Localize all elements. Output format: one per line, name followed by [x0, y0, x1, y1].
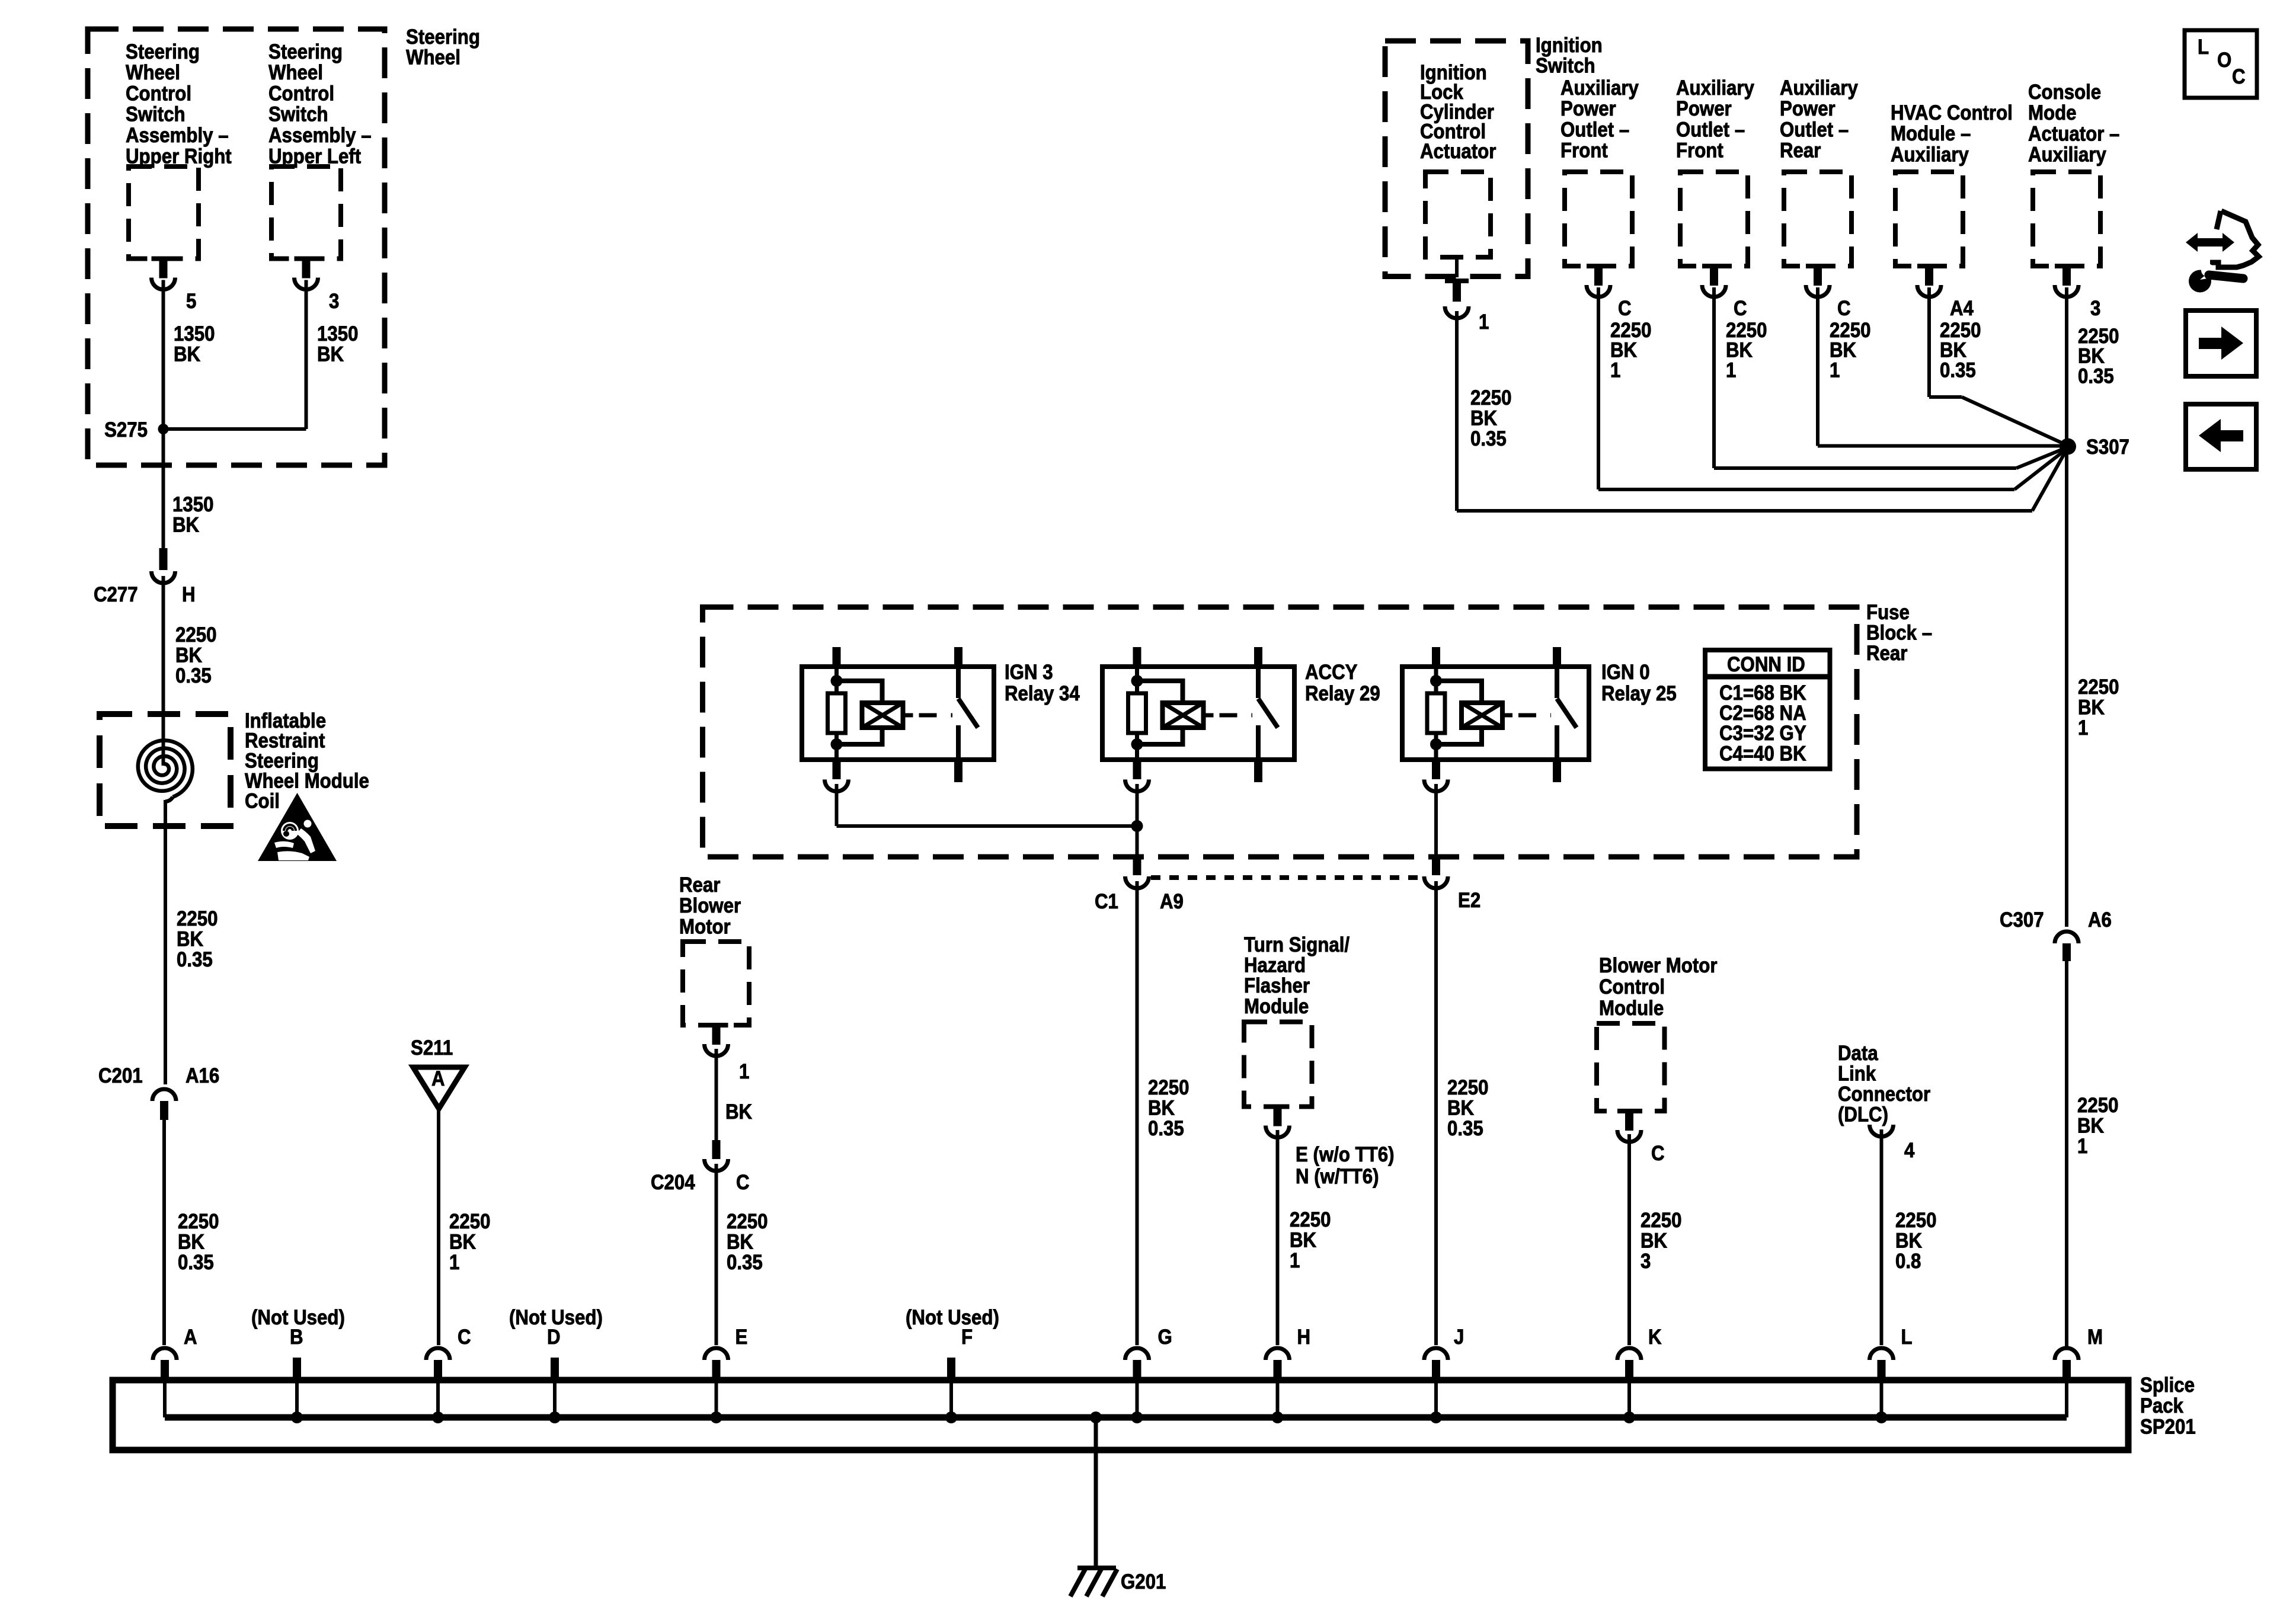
- wire ILCCA horizontal to S307: [1457, 509, 2032, 513]
- svg-text:Fuse: Fuse: [1866, 601, 1910, 624]
- connector cup of relay IGN 3 Relay 34: [825, 780, 849, 792]
- auxiliary power outlet rear connector box: [1784, 172, 1851, 266]
- label (Not Used): [906, 1306, 999, 1329]
- svg-text:1350: 1350: [317, 322, 358, 345]
- pin letter C: [458, 1326, 471, 1349]
- svg-text:Control: Control: [126, 82, 191, 105]
- pin C of auxiliary power outlet front 2: [1734, 297, 1747, 320]
- svg-text:Blower: Blower: [679, 894, 741, 917]
- ILCCA connector box: [1425, 172, 1491, 257]
- wire relay IGN 3 Relay 34 resistor bottom: [834, 733, 839, 760]
- svg-text:0.35: 0.35: [2078, 365, 2114, 388]
- wire 2250 BK 0.35 to splice pin J: [1434, 881, 1438, 1345]
- pin letter M: [2087, 1326, 2103, 1349]
- fuse block connector dotted boundary: [1151, 875, 1422, 880]
- splice pack pin J: [1424, 1348, 1448, 1360]
- junction at ACCY relay wire: [1131, 820, 1143, 832]
- svg-text:1: 1: [1290, 1249, 1300, 1272]
- svg-text:G: G: [1158, 1326, 1172, 1349]
- svg-text:SP201: SP201: [2140, 1416, 2196, 1439]
- svg-text:3: 3: [2090, 297, 2100, 320]
- wire splice jog to S275: [164, 427, 306, 431]
- junction at ground tap: [1090, 1411, 1102, 1423]
- label ignition lock cylinder control actuator: [1420, 61, 1496, 163]
- wire label 2250 BK 1 above pin H: [1290, 1208, 1331, 1272]
- wire relay ACCY Relay 29 coil parallel branch: [1137, 681, 1183, 703]
- svg-text:BK: BK: [725, 1100, 752, 1124]
- svg-text:(Not Used): (Not Used): [251, 1306, 345, 1329]
- svg-text:0.35: 0.35: [1470, 427, 1507, 450]
- wire console mode actuator down to C307: [2065, 287, 2068, 927]
- svg-text:C204: C204: [651, 1171, 695, 1194]
- label auxiliary power outlet front 2: [1676, 76, 1754, 162]
- splice pack pin C: [426, 1348, 450, 1360]
- wire label BK: [725, 1100, 752, 1124]
- label C201: [98, 1064, 143, 1087]
- wire label 2250 BK 0.35: [175, 623, 216, 687]
- wire label 1350 BK (pin 5): [174, 322, 215, 366]
- wire label 2250 BK 1 above pin M: [2077, 1094, 2118, 1158]
- pin E2: [1458, 889, 1480, 912]
- CONN ID table: [1705, 650, 1830, 769]
- svg-text:BK: BK: [174, 343, 200, 366]
- connector of DLC pin 4: [1870, 1125, 1894, 1137]
- arrow box left: [2186, 404, 2256, 469]
- wire label 2250 BK 0.35 below coil: [177, 907, 218, 971]
- HVAC control module auxiliary connector box: [1895, 172, 1963, 266]
- svg-text:ACCY: ACCY: [1305, 661, 1357, 684]
- svg-text:C: C: [736, 1171, 750, 1194]
- pin C of auxiliary power outlet front 1: [1618, 297, 1632, 320]
- svg-text:HVAC Control: HVAC Control: [1891, 101, 2013, 124]
- svg-text:K: K: [1648, 1326, 1662, 1349]
- relay IGN 3 Relay 34 switch terminal stub (top): [954, 647, 962, 667]
- connector pin C of auxiliary power outlet front 2: [1702, 264, 1726, 268]
- svg-text:Front: Front: [1676, 139, 1723, 162]
- svg-text:Control: Control: [268, 82, 334, 105]
- wire label 2250 BK 1 (aux outlet rear): [1830, 319, 1870, 382]
- relay ACCY Relay 29 body: [1102, 667, 1294, 760]
- connector pin A4 of HVAC control module auxiliary: [1917, 264, 1941, 268]
- svg-text:Hazard: Hazard: [1244, 954, 1306, 977]
- svg-text:H: H: [182, 583, 196, 606]
- svg-text:Actuator –: Actuator –: [2028, 123, 2119, 146]
- svg-text:A: A: [431, 1067, 445, 1090]
- letter C: [2232, 65, 2246, 88]
- svg-text:N (w/TT6): N (w/TT6): [1296, 1165, 1379, 1188]
- wire IGN0 relay coil return down: [1434, 784, 1438, 858]
- svg-text:Outlet –: Outlet –: [1780, 119, 1849, 142]
- relay ACCY Relay 29 coil terminal stub (top): [1133, 647, 1141, 667]
- wire 1350 BK below S275: [162, 429, 165, 548]
- pin letter G: [1158, 1326, 1172, 1349]
- svg-text:BK: BK: [1470, 407, 1497, 430]
- svg-text:3: 3: [1641, 1250, 1651, 1273]
- wire label 2250 BK 1 (aux outlet 1): [1610, 319, 1651, 382]
- wire HVAC diagonal to S307: [1962, 397, 2068, 446]
- splice pack pin E: [705, 1348, 728, 1360]
- svg-text:BK: BK: [1641, 1230, 1667, 1253]
- svg-text:E: E: [736, 1326, 748, 1349]
- svg-text:Ignition: Ignition: [1536, 34, 1603, 57]
- svg-text:S275: S275: [104, 418, 148, 441]
- arrow box right: [2186, 311, 2256, 376]
- label auxiliary power outlet front 1: [1560, 76, 1639, 162]
- wire BK from rear blower: [715, 1049, 718, 1140]
- svg-text:Assembly –: Assembly –: [126, 124, 229, 147]
- junction relay ACCY Relay 29 coil bottom: [1131, 738, 1143, 750]
- relay IGN 0 Relay 25 switch terminal stub (bottom): [1553, 760, 1561, 782]
- svg-text:M: M: [2087, 1326, 2103, 1349]
- svg-text:Power: Power: [1780, 97, 1835, 120]
- airbag warning triangle: [258, 793, 337, 861]
- connector pin 1 of rear blower motor: [705, 1023, 728, 1028]
- svg-text:BK: BK: [1447, 1097, 1474, 1120]
- wire label 1350 BK below box: [172, 493, 213, 537]
- svg-text:Auxiliary: Auxiliary: [2028, 143, 2106, 167]
- connector pin 1 of ILCCA: [1455, 257, 1459, 277]
- splice pack pin F: [947, 1358, 955, 1379]
- svg-text:0.35: 0.35: [727, 1251, 763, 1274]
- splice pack pin D: [551, 1358, 559, 1379]
- splice S275: [158, 424, 169, 434]
- svg-text:1: 1: [2077, 1135, 2087, 1158]
- svg-text:BK: BK: [172, 514, 199, 537]
- wire aux outlet 1 diagonal to S307: [2014, 448, 2068, 489]
- label auxiliary power outlet rear: [1780, 76, 1858, 162]
- svg-text:A16: A16: [186, 1064, 219, 1087]
- svg-text:Relay 34: Relay 34: [1005, 682, 1080, 705]
- svg-text:BK: BK: [1895, 1230, 1922, 1253]
- svg-text:2250: 2250: [175, 623, 216, 646]
- svg-text:Wheel: Wheel: [268, 61, 323, 84]
- wire label 2250 BK 0.35 above pin E: [727, 1210, 768, 1274]
- svg-text:Auxiliary: Auxiliary: [1891, 143, 1969, 167]
- svg-text:Auxiliary: Auxiliary: [1780, 76, 1858, 100]
- svg-text:2250: 2250: [2078, 676, 2119, 699]
- pin A4 of HVAC control module auxiliary: [1950, 297, 1974, 320]
- wire 2250 BK 3 to splice pin K: [1627, 1134, 1631, 1345]
- label fuse block rear: [1866, 601, 1932, 665]
- connector pin 3 of console mode actuator auxiliary: [2055, 264, 2078, 268]
- svg-text:BK: BK: [317, 343, 344, 366]
- relay IGN 0 Relay 25 coil terminal stub (top): [1432, 647, 1440, 667]
- wire ACCY relay coil return down: [1136, 784, 1139, 858]
- wire 2250 BK 1 from S211 to pin C: [437, 1109, 440, 1345]
- SWCS upper left connector box: [271, 167, 341, 259]
- svg-text:1: 1: [1479, 311, 1489, 334]
- svg-text:Power: Power: [1676, 97, 1732, 120]
- svg-text:J: J: [1454, 1326, 1464, 1349]
- pin C of BMCM: [1651, 1142, 1665, 1165]
- svg-text:Blower Motor: Blower Motor: [1599, 954, 1717, 977]
- label console mode actuator auxiliary: [2028, 81, 2119, 167]
- pin number 5: [186, 290, 196, 313]
- svg-text:Control: Control: [1599, 975, 1665, 998]
- wire 2250 BK 1 to splice pin M: [2065, 961, 2068, 1347]
- svg-text:Relay 29: Relay 29: [1305, 682, 1380, 705]
- svg-text:2250: 2250: [2077, 1094, 2118, 1117]
- svg-text:IGN 0: IGN 0: [1601, 661, 1650, 684]
- wire label 2250 BK 3 above pin K: [1641, 1209, 1681, 1273]
- svg-text:H: H: [1297, 1326, 1311, 1349]
- service icon double arrow: [2186, 233, 2234, 252]
- service icon wrench: [2189, 270, 2211, 293]
- label C277: [94, 583, 138, 606]
- svg-text:Link: Link: [1838, 1062, 1876, 1086]
- wire label 2250 BK 1 (aux outlet 2): [1726, 319, 1767, 382]
- svg-text:3: 3: [329, 290, 339, 313]
- svg-text:2250: 2250: [178, 1210, 219, 1233]
- wire relay IGN 0 Relay 25 coil parallel branch: [1436, 681, 1482, 703]
- svg-text:Splice: Splice: [2140, 1374, 2195, 1397]
- svg-text:2250: 2250: [1148, 1076, 1189, 1099]
- label SWCS upper right: [126, 40, 232, 168]
- svg-text:0.35: 0.35: [175, 664, 212, 687]
- splice pack pin G: [1125, 1348, 1149, 1360]
- svg-text:Mode: Mode: [2028, 101, 2077, 124]
- svg-text:A9: A9: [1160, 890, 1184, 913]
- wire HVAC horizontal: [1929, 395, 1962, 399]
- label splice pack SP201: [2140, 1374, 2196, 1439]
- svg-text:C1: C1: [1095, 890, 1118, 913]
- svg-text:2250: 2250: [1290, 1208, 1331, 1231]
- relay IGN 0 Relay 25 switch terminal stub (top): [1553, 647, 1561, 667]
- label turn signal hazard flasher module: [1244, 933, 1350, 1018]
- letter L: [2198, 36, 2209, 59]
- wire label 2250 BK 0.35 (pin J column): [1447, 1076, 1488, 1140]
- label S211: [411, 1036, 453, 1060]
- wire relay IGN 3 Relay 34 coil branch: [834, 667, 839, 693]
- wire 2250 BK 0.35 to splice pin G: [1136, 881, 1139, 1345]
- splice pack pin H: [1266, 1348, 1290, 1360]
- turn signal flasher connector box: [1244, 1022, 1312, 1107]
- svg-text:Console: Console: [2028, 81, 2101, 104]
- wire aux outlet rear horizontal to S307: [1818, 444, 2068, 448]
- pin letter J: [1454, 1326, 1464, 1349]
- wire label 2250 BK 0.35 (console): [2078, 325, 2119, 388]
- svg-text:Switch: Switch: [126, 103, 186, 126]
- auxiliary power outlet front 1 connector box: [1565, 172, 1632, 266]
- svg-text:A4: A4: [1950, 297, 1974, 320]
- svg-text:0.35: 0.35: [177, 948, 213, 971]
- svg-text:1: 1: [2078, 716, 2088, 740]
- wire 1350 BK from pin 3: [305, 280, 308, 430]
- splice S307: [2060, 438, 2076, 455]
- label blower motor control module: [1599, 954, 1717, 1020]
- wire label 1350 BK (pin 3): [317, 322, 358, 366]
- inflatable restraint coil dashed box: [100, 714, 231, 826]
- svg-text:Outlet –: Outlet –: [1676, 119, 1745, 142]
- pin letter F: [961, 1326, 973, 1349]
- label (Not Used): [509, 1306, 603, 1329]
- svg-text:Steering: Steering: [268, 40, 343, 63]
- relay IGN 3 Relay 34 switch terminal stub (bottom): [954, 760, 962, 782]
- male pin of C277: [159, 548, 168, 570]
- relay ACCY Relay 29 switch terminal stub (top): [1254, 647, 1262, 667]
- wire label 2250 BK 1 above pin C: [449, 1210, 490, 1274]
- svg-text:2250: 2250: [1470, 386, 1511, 409]
- label C204: [651, 1171, 695, 1194]
- svg-text:1: 1: [1610, 359, 1620, 382]
- svg-text:Coil: Coil: [245, 790, 280, 813]
- SWCS upper right connector box: [129, 167, 199, 259]
- splice symbol S211 triangle: [413, 1067, 465, 1109]
- relay ACCY Relay 29 switch terminal stub (bottom): [1254, 760, 1262, 782]
- svg-text:Switch: Switch: [268, 103, 328, 126]
- label SWCS upper left: [268, 40, 372, 168]
- pin number 1: [1479, 311, 1489, 334]
- svg-text:Switch: Switch: [1536, 55, 1595, 78]
- svg-text:L: L: [1901, 1326, 1913, 1349]
- pin number 1 (rear blower): [739, 1060, 749, 1083]
- connector pin 3 of SWCS upper left: [295, 257, 318, 261]
- connector pin 5 of SWCS upper right: [152, 257, 175, 261]
- wire relay ACCY Relay 29 coil branch: [1135, 667, 1139, 693]
- wire aux outlet 1 down: [1597, 287, 1600, 489]
- connector pin C of auxiliary power outlet rear: [1806, 264, 1830, 268]
- svg-text:L: L: [2198, 36, 2209, 59]
- svg-text:BK: BK: [1148, 1097, 1175, 1120]
- wire aux outlet 2 diagonal to S307: [2016, 447, 2068, 469]
- label data link connector DLC: [1838, 1042, 1930, 1126]
- wire 2250 BK 0.8 to splice pin L: [1880, 1129, 1884, 1345]
- coil of relay IGN 0 Relay 25: [1462, 703, 1502, 728]
- wire from coil down to C201: [164, 800, 167, 1084]
- svg-text:Auxiliary: Auxiliary: [1676, 76, 1754, 100]
- svg-text:1: 1: [1726, 359, 1736, 382]
- svg-text:BK: BK: [2077, 1115, 2104, 1138]
- service icon outline shape: [2210, 211, 2259, 267]
- svg-text:S211: S211: [411, 1036, 453, 1060]
- wire 1350 BK from pin 5: [162, 280, 165, 430]
- junction relay ACCY Relay 29 coil top: [1131, 675, 1143, 687]
- svg-text:5: 5: [186, 290, 196, 313]
- svg-text:A6: A6: [2088, 908, 2112, 932]
- wire aux outlet 2 down: [1712, 287, 1716, 468]
- svg-text:C: C: [1651, 1142, 1665, 1165]
- svg-text:C277: C277: [94, 583, 138, 606]
- svg-text:C: C: [1837, 297, 1851, 320]
- resistor of relay IGN 0 Relay 25: [1427, 693, 1445, 733]
- pin C of C204: [736, 1171, 750, 1194]
- svg-text:E2: E2: [1458, 889, 1480, 912]
- svg-text:2250: 2250: [1641, 1209, 1681, 1232]
- svg-text:Steering: Steering: [126, 40, 200, 63]
- pin letter K: [1648, 1326, 1662, 1349]
- switch of relay IGN 0 Relay 25: [1555, 667, 1559, 698]
- label Ignition Switch: [1536, 34, 1603, 78]
- switch of relay ACCY Relay 29: [1256, 667, 1261, 698]
- svg-text:2250: 2250: [727, 1210, 768, 1233]
- clockspring coil symbol: [138, 741, 193, 798]
- blower motor control module connector box: [1597, 1023, 1665, 1111]
- svg-text:BK: BK: [175, 644, 202, 667]
- wire label 2250 BK 0.35 (pin G column): [1148, 1076, 1189, 1140]
- svg-text:Rear: Rear: [1866, 642, 1907, 665]
- wire aux outlet 1 horizontal to S307: [1598, 488, 2014, 491]
- pin E w/o TT6 N w/TT6: [1296, 1143, 1395, 1188]
- splice pack pin L: [1870, 1348, 1894, 1360]
- wire IGN3 relay coil return down: [835, 784, 839, 826]
- resistor of relay ACCY Relay 29: [1128, 693, 1146, 733]
- svg-text:BK: BK: [727, 1231, 753, 1254]
- label G201: [1121, 1570, 1166, 1593]
- label rear blower motor: [679, 873, 741, 939]
- svg-text:(DLC): (DLC): [1838, 1103, 1888, 1126]
- svg-text:IGN 3: IGN 3: [1005, 661, 1053, 684]
- pin letter L: [1901, 1326, 1913, 1349]
- svg-text:0.35: 0.35: [178, 1251, 214, 1274]
- svg-text:CONN ID: CONN ID: [1727, 653, 1805, 676]
- relay IGN 3 Relay 34 body: [802, 667, 994, 760]
- pin number 4 (DLC): [1904, 1139, 1915, 1162]
- connector C277: [152, 571, 175, 583]
- splice pack pin B: [293, 1358, 301, 1379]
- switch of relay IGN 3 Relay 34: [956, 667, 961, 698]
- wire label 2250 BK 0.35 above pin A: [178, 1210, 219, 1274]
- table header CONN ID: [1727, 653, 1805, 676]
- table rows C1-C4: [1719, 681, 1806, 766]
- connector C201: [152, 1089, 176, 1101]
- coil of relay ACCY Relay 29: [1163, 703, 1204, 728]
- svg-text:E (w/o TT6): E (w/o TT6): [1296, 1143, 1395, 1166]
- svg-text:2250: 2250: [1447, 1076, 1488, 1099]
- svg-text:Steering: Steering: [406, 25, 480, 49]
- relay IGN 0 Relay 25 coil terminal stub (bottom): [1432, 760, 1440, 779]
- svg-text:C4=40 BK: C4=40 BK: [1719, 742, 1806, 766]
- svg-text:Outlet –: Outlet –: [1560, 119, 1629, 142]
- wire aux outlet 2 horizontal to S307: [1714, 466, 2016, 470]
- svg-text:Relay 25: Relay 25: [1601, 682, 1677, 705]
- wire 2250 BK 1 to splice pin H: [1276, 1130, 1280, 1345]
- coil of relay IGN 3 Relay 34: [862, 703, 903, 728]
- pin H: [182, 583, 196, 606]
- svg-text:(Not Used): (Not Used): [906, 1306, 999, 1329]
- svg-text:Wheel: Wheel: [126, 61, 180, 84]
- resistor of relay IGN 3 Relay 34: [828, 693, 846, 733]
- connector pin E2 of fuse block: [1432, 859, 1440, 875]
- steering wheel assembly dashed box: [88, 29, 385, 465]
- svg-text:0.35: 0.35: [1148, 1117, 1184, 1140]
- wire relay IGN 3 Relay 34 coil parallel branch: [837, 681, 882, 703]
- ignition switch dashed box: [1385, 41, 1528, 277]
- ground G201 symbol: [1077, 1566, 1116, 1570]
- svg-text:4: 4: [1904, 1139, 1915, 1162]
- svg-text:BK: BK: [1290, 1229, 1316, 1252]
- svg-text:0.8: 0.8: [1895, 1250, 1921, 1273]
- auxiliary power outlet front 2 connector box: [1680, 172, 1748, 266]
- connector pin C of auxiliary power outlet front 1: [1587, 264, 1610, 268]
- pin A16: [186, 1064, 219, 1087]
- svg-text:0.35: 0.35: [1940, 359, 1976, 382]
- connector pin C of blower motor control module: [1617, 1109, 1641, 1113]
- svg-text:1: 1: [449, 1251, 459, 1274]
- letter A inside S211: [431, 1067, 445, 1090]
- wire ILCCA diagonal to S307: [2032, 447, 2068, 511]
- pin letter A: [184, 1326, 197, 1349]
- svg-text:BK: BK: [177, 928, 203, 951]
- label IGN 3 Relay 34: [1005, 661, 1080, 705]
- pin number 3: [329, 290, 339, 313]
- wire relay IGN 0 Relay 25 coil branch: [1434, 667, 1438, 693]
- wire label 2250 BK 1 above C307: [2078, 676, 2119, 740]
- LOC reference box: [2185, 30, 2257, 98]
- connector C204 pin C: [712, 1140, 721, 1159]
- label (Not Used): [251, 1306, 345, 1329]
- label HVAC control module auxiliary: [1891, 101, 2013, 167]
- svg-text:Module –: Module –: [1891, 122, 1971, 145]
